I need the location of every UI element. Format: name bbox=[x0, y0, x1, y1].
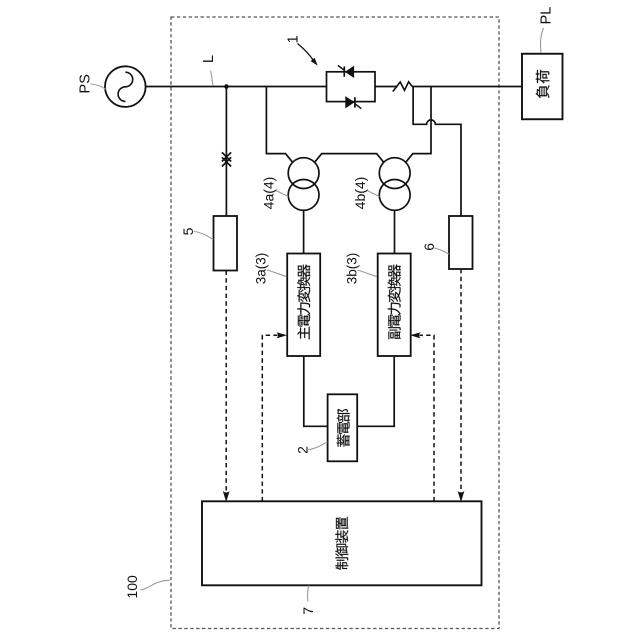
svg-text:5: 5 bbox=[180, 227, 196, 235]
arrowhead into control 7 (from 5) bbox=[223, 491, 230, 502]
leader PL bbox=[540, 28, 543, 53]
leader 3a bbox=[267, 270, 286, 277]
svg-text:4b(4): 4b(4) bbox=[352, 177, 368, 210]
sub power converter 3b(3) bbox=[378, 254, 411, 357]
storage unit 2 (chikudenbu) bbox=[328, 394, 358, 461]
arrowhead into 3a bbox=[277, 332, 288, 338]
leader 5 bbox=[194, 232, 213, 240]
detector box 6 bbox=[449, 216, 473, 269]
transformer 4a(4) bbox=[288, 158, 319, 189]
leader 100 bbox=[140, 580, 169, 589]
svg-text:7: 7 bbox=[300, 607, 316, 615]
arrowhead into control 7 (from 6) bbox=[458, 491, 465, 502]
leader 4b bbox=[367, 191, 379, 197]
dashed signal: control 7 to converter 3a bbox=[262, 335, 277, 501]
dashed signal: detector 6 to control 7 bbox=[460, 269, 462, 493]
wire: bus right riser bbox=[406, 87, 431, 163]
AC power source PS bbox=[105, 66, 146, 107]
leader arrow for 1 bbox=[298, 44, 314, 61]
svg-text:L: L bbox=[201, 55, 217, 63]
svg-text:2: 2 bbox=[294, 446, 310, 454]
main power converter 3a(3) bbox=[287, 254, 320, 357]
leader 2 bbox=[308, 442, 327, 450]
instrument transformer symbol (double X) bbox=[222, 152, 231, 166]
svg-text:3a(3): 3a(3) bbox=[254, 253, 269, 285]
zigzag break symbol on line bbox=[393, 82, 412, 92]
junction node on line L bbox=[224, 84, 229, 89]
svg-text:PL: PL bbox=[538, 7, 554, 25]
wire: junction down to detector 5 bbox=[225, 87, 227, 217]
wire: box 1 to zigzag bbox=[375, 86, 398, 88]
svg-text:1: 1 bbox=[285, 35, 301, 43]
wire: bus between transformers bbox=[315, 154, 384, 163]
leader L bbox=[211, 71, 213, 86]
leader 6 bbox=[435, 248, 449, 254]
wire: 3b to storage 2 bbox=[357, 356, 394, 426]
load box PL (fuka) bbox=[522, 54, 563, 120]
wire: 4b to 3b bbox=[394, 210, 396, 253]
detector box 5 bbox=[214, 216, 238, 271]
arrowhead into 3b bbox=[410, 332, 421, 338]
leader PS bbox=[91, 84, 106, 89]
svg-text:4a(4): 4a(4) bbox=[261, 177, 277, 210]
svg-text:6: 6 bbox=[421, 243, 437, 251]
switch unit 1: thyristor loop bbox=[327, 72, 376, 102]
leader 7 bbox=[308, 586, 309, 602]
wire: branch at x=413 down, hop, to box 6 bbox=[413, 87, 461, 217]
thyristor lower (pointing right) bbox=[346, 97, 354, 107]
control device 7 (seigyo souchi) bbox=[202, 501, 482, 585]
wire: zigzag to load bbox=[412, 86, 522, 88]
wire: 3a to storage 2 bbox=[304, 356, 328, 426]
svg-text:3b(3): 3b(3) bbox=[344, 253, 359, 285]
wire: main line L from source to box 1 bbox=[146, 86, 327, 88]
leader 4a bbox=[276, 191, 288, 197]
wire: branch down at x=266.4 to transformer bus bbox=[266, 87, 292, 163]
dashed signal: detector 5 to control 7 bbox=[225, 271, 227, 493]
transformer 4b(4) bbox=[379, 158, 410, 189]
dashed enclosure boundary 100 bbox=[171, 17, 499, 629]
svg-text:100: 100 bbox=[124, 575, 140, 599]
leader 3b bbox=[358, 270, 377, 277]
wire: 4a to 3a bbox=[303, 210, 305, 253]
thyristor upper (pointing left) bbox=[346, 67, 354, 77]
dashed signal: control 7 to converter 3b bbox=[420, 335, 435, 501]
